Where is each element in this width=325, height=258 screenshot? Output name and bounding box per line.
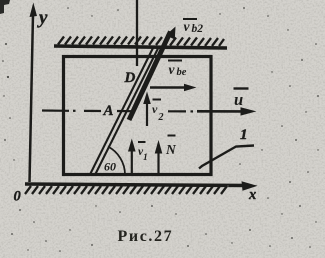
block rectangle body 1 — [64, 57, 212, 175]
svg-text:A: A — [103, 103, 114, 119]
label N — [165, 136, 177, 158]
y-axis — [30, 3, 38, 183]
svg-text:1: 1 — [143, 153, 148, 163]
velocity arrow vbe (horizontal, below ceiling) — [150, 84, 197, 91]
svg-text:2: 2 — [158, 112, 164, 123]
svg-text:60: 60 — [104, 160, 116, 174]
ceiling line — [54, 46, 227, 48]
floor hatching — [25, 186, 227, 194]
60 degree angle arc — [108, 147, 125, 175]
rod (body 2) outline, two parallel lines at 60 deg — [91, 46, 160, 174]
svg-text:v: v — [184, 19, 191, 34]
label u — [234, 89, 249, 110]
svg-text:1: 1 — [240, 127, 248, 143]
label vbe — [168, 61, 187, 79]
ceiling hatching — [58, 37, 224, 47]
x-axis / floor line — [25, 181, 258, 191]
velocity arrow v1 (vertical up from rod foot) — [128, 139, 136, 175]
label v1 — [138, 142, 148, 163]
plumb line above ceiling to D — [136, 0, 138, 66]
svg-text:b2: b2 — [192, 23, 204, 35]
svg-text:u: u — [234, 90, 243, 109]
svg-text:N: N — [165, 142, 177, 157]
svg-text:v: v — [169, 62, 176, 77]
scan smudge top-left corner — [0, 0, 10, 14]
velocity arrow u (horizontal, on centerline) — [197, 107, 257, 115]
svg-text:x: x — [248, 187, 256, 203]
velocity arrow vb2 along rod (thick) — [129, 27, 176, 121]
velocity arrow v2 (small vertical up) — [143, 92, 151, 127]
svg-text:Рис.27: Рис.27 — [118, 228, 174, 245]
svg-text:у: у — [37, 8, 48, 29]
svg-text:D: D — [124, 70, 136, 86]
leader line for label 1 — [199, 146, 254, 169]
label v2 — [152, 100, 164, 124]
svg-text:be: be — [177, 67, 187, 78]
label vb2 — [183, 19, 203, 35]
svg-text:v: v — [152, 102, 158, 116]
normal force arrow N — [155, 140, 163, 176]
horizontal dash-dot centerline through A — [42, 109, 193, 112]
svg-text:0: 0 — [14, 189, 21, 205]
